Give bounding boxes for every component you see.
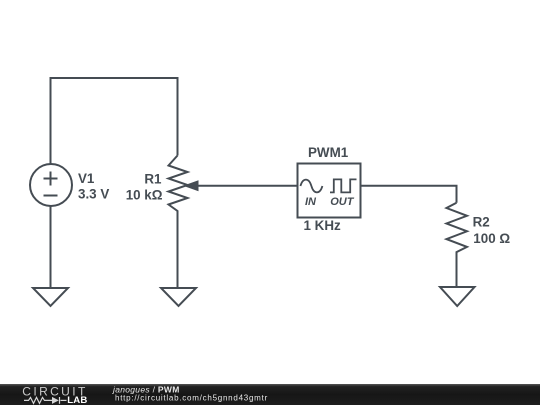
- svg-text:PWM1: PWM1: [308, 145, 349, 160]
- svg-text:10 kΩ: 10 kΩ: [126, 188, 163, 203]
- svg-text:3.3 V: 3.3 V: [78, 187, 109, 202]
- svg-text:R1: R1: [144, 171, 162, 186]
- svg-text:IN: IN: [305, 196, 317, 208]
- svg-text:http://circuitlab.com/ch5gnnd4: http://circuitlab.com/ch5gnnd43gmtr: [115, 394, 268, 403]
- svg-text:V1: V1: [78, 171, 95, 186]
- svg-text:R2: R2: [473, 215, 490, 230]
- svg-text:LAB: LAB: [67, 395, 87, 405]
- svg-text:1 KHz: 1 KHz: [304, 218, 342, 233]
- svg-text:100 Ω: 100 Ω: [473, 231, 510, 246]
- svg-text:OUT: OUT: [330, 196, 355, 208]
